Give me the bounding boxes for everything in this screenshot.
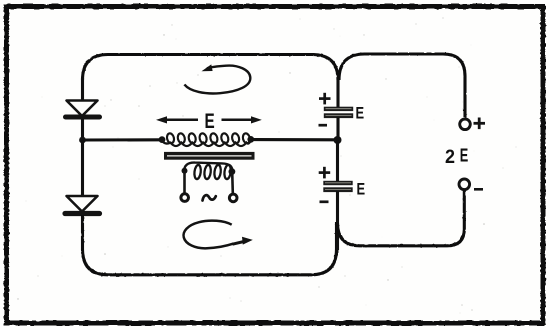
wire: left loop top (y=54) <box>83 55 339 81</box>
svg-text:E: E <box>205 110 215 133</box>
wire: secondary right lead (coil to node B) <box>251 138 337 141</box>
current arrow (top loop) <box>184 64 250 93</box>
wire: secondary left lead (node A to coil) <box>83 138 163 141</box>
wire: center vertical C2 down to left-loop bottom corner <box>336 191 339 250</box>
wire: primary left lead <box>183 171 186 193</box>
node B (junction dot, center) <box>334 136 342 144</box>
node A (junction dot, left) <box>79 137 86 144</box>
wire: primary right lead <box>231 172 234 193</box>
wire: left vertical between D1 and node A <box>81 119 84 141</box>
label - (output) <box>474 188 483 191</box>
transformer primary winding L2 <box>182 163 236 180</box>
terminal: output - (open circle) <box>459 179 470 190</box>
current arrow (bottom loop) <box>184 221 253 249</box>
wire: center vertical node B to C2 <box>336 140 339 182</box>
wire: right loop bottom <box>338 191 465 246</box>
transformer secondary winding L1 <box>159 133 255 146</box>
svg-text:E: E <box>460 146 469 166</box>
terminal: primary right (open circle) <box>229 194 237 202</box>
diode D2 <box>65 196 100 214</box>
arrow left <box>162 119 198 122</box>
terminal: output + (open circle) <box>460 119 471 130</box>
label + (output) <box>474 118 486 130</box>
label E with arrows (secondary voltage) <box>156 110 262 133</box>
label + (C1) <box>319 93 331 105</box>
arrow right <box>222 119 257 122</box>
diode D1 <box>66 101 100 118</box>
wire: left vertical upper segment <box>81 78 84 102</box>
label + (C2) <box>319 167 331 179</box>
wire: center vertical C1 to node B <box>336 117 339 141</box>
wire: center vertical top (merge to C1) <box>336 77 339 108</box>
label - (C1) <box>319 124 328 127</box>
capacitor C1 <box>324 107 353 118</box>
transformer core <box>164 152 255 160</box>
capacitor C2 <box>323 181 352 192</box>
AC source symbol (~) <box>203 195 216 200</box>
wire: left vertical between node A and D2 <box>81 140 84 197</box>
label - (C2) <box>320 200 329 203</box>
svg-text:E: E <box>357 181 366 199</box>
wire: left vertical lower + left loop bottom (y=275) <box>83 215 337 275</box>
terminal: primary left (open circle) <box>181 194 189 202</box>
svg-text:E: E <box>356 104 365 122</box>
wire: right loop top <box>339 54 465 118</box>
svg-text:2: 2 <box>445 146 455 168</box>
